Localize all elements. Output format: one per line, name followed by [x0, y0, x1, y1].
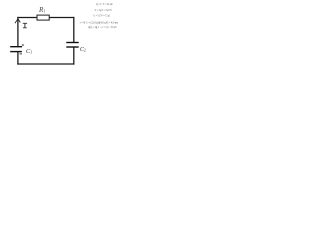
svg-text:C2: C2 — [80, 47, 86, 53]
wire bottom — [17, 63, 74, 65]
capacitor C1 top plate — [10, 46, 22, 48]
wire left — [17, 17, 19, 47]
svg-text:U = ½CV² = 72 µJ: U = ½CV² = 72 µJ — [94, 14, 111, 18]
svg-text:q(t) = Q(1 − e⁻ᵗ/τ) = 15 µC: q(t) = Q(1 − e⁻ᵗ/τ) = 15 µC — [88, 25, 117, 29]
minus sign — [20, 53, 23, 55]
wire top — [17, 17, 74, 19]
wire right lower — [73, 47, 75, 65]
capacitor C1 bottom plate — [10, 51, 22, 53]
current arrow — [15, 19, 20, 23]
svg-text:V = Q/C = 6.0 V: V = Q/C = 6.0 V — [95, 8, 113, 12]
svg-text:C1: C1 — [26, 48, 33, 55]
capacitor C2 top plate — [66, 42, 78, 44]
resistor R1 — [37, 15, 49, 20]
plus sign — [22, 44, 24, 46]
label I — [23, 23, 27, 28]
wire right upper — [73, 17, 75, 43]
svg-text:R1: R1 — [38, 6, 46, 14]
wire stub below C1 — [17, 52, 19, 65]
svg-text:Q = C·V = 24 µC: Q = C·V = 24 µC — [96, 2, 113, 6]
capacitor C2 bottom plate — [66, 46, 78, 48]
